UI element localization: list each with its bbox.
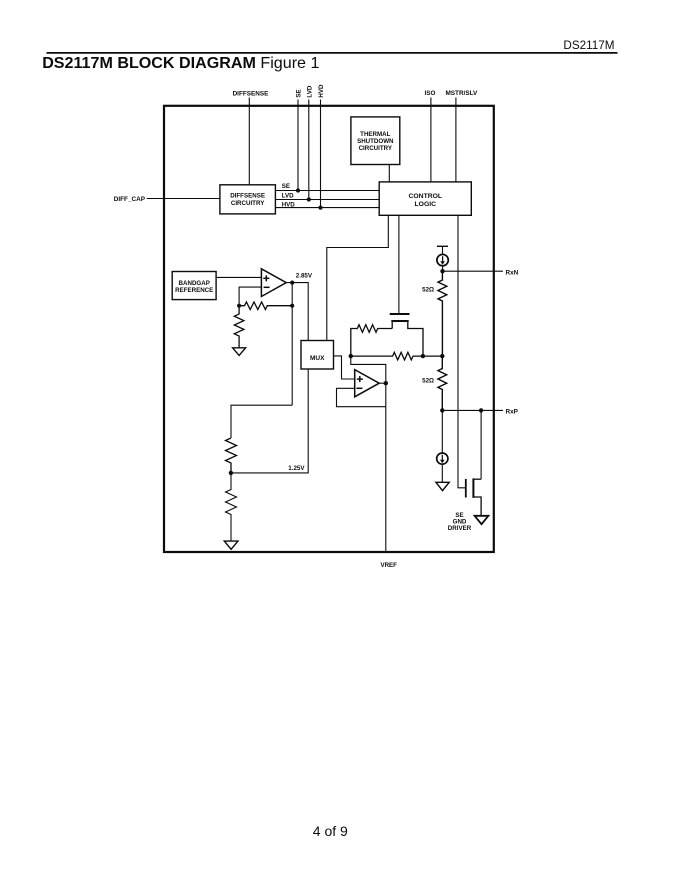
wire 2.85V down xyxy=(291,283,293,406)
resistor R8 52ohm xyxy=(438,356,447,410)
node A junction xyxy=(349,354,353,358)
current source I1 xyxy=(437,246,448,271)
svg-text:2.85V: 2.85V xyxy=(296,273,313,280)
svg-text:RxN: RxN xyxy=(506,269,519,276)
resistor R6 xyxy=(351,352,443,360)
svg-text:BANDGAP: BANDGAP xyxy=(179,280,210,287)
resistor R5 xyxy=(351,325,392,356)
svg-text:DIFFSENSE: DIFFSENSE xyxy=(230,193,265,200)
svg-text:DS2117M: DS2117M xyxy=(563,39,614,52)
svg-text:LVD: LVD xyxy=(282,193,294,200)
wire 1.25V to MUX xyxy=(231,369,308,473)
op-amp U1 output wire to MUX xyxy=(286,283,308,341)
BANDGAP REFERENCE box U6 xyxy=(172,272,216,300)
transistor M2 xyxy=(466,478,481,515)
transistor M1 xyxy=(390,314,423,356)
svg-text:SHUTDOWN: SHUTDOWN xyxy=(357,138,394,145)
current source I2 xyxy=(437,410,448,482)
VREF wire xyxy=(385,383,387,552)
node rail junction xyxy=(440,354,444,358)
node R6 right junction xyxy=(421,354,425,358)
THERMAL SHUTDOWN CIRCUITRY box U4 xyxy=(351,117,400,165)
header rule xyxy=(47,52,618,54)
svg-text:LVD: LVD xyxy=(306,85,313,97)
outer frame xyxy=(164,106,494,552)
MUX box U7 xyxy=(301,341,334,370)
wire control logic to M1 gate xyxy=(398,215,400,313)
wire U2 output xyxy=(379,382,386,384)
DIFFSENSE CIRCUITRY box U3 xyxy=(220,185,276,214)
MSTR/SLV wire xyxy=(455,98,457,182)
HVD pin wire xyxy=(320,100,322,208)
RxN wire xyxy=(443,270,504,272)
svg-text:MSTR/SLV: MSTR/SLV xyxy=(445,90,478,97)
wire MUX output to op-amp U2 xyxy=(334,356,355,379)
SE pin wire xyxy=(297,100,299,191)
supply tick xyxy=(437,245,448,247)
ground GND1 xyxy=(233,348,246,356)
node 2.85V junction xyxy=(290,281,294,285)
svg-text:1.25V: 1.25V xyxy=(288,465,305,472)
DIFF_CAP wire xyxy=(147,198,220,200)
node U2 output xyxy=(384,381,388,385)
svg-text:HVD: HVD xyxy=(318,84,325,98)
SE junction xyxy=(296,188,300,192)
HVD junction xyxy=(318,206,322,210)
node RxN junction xyxy=(440,269,444,273)
LVD pin wire xyxy=(308,100,310,200)
svg-text:THERMAL: THERMAL xyxy=(360,131,390,138)
wire U1 inverting input xyxy=(239,287,261,306)
svg-text:LOGIC: LOGIC xyxy=(415,201,437,208)
svg-text:SE: SE xyxy=(295,89,302,97)
svg-text:DS2117M BLOCK DIAGRAM Figure 1: DS2117M BLOCK DIAGRAM Figure 1 xyxy=(42,54,319,72)
svg-text:DRIVER: DRIVER xyxy=(448,525,472,532)
svg-text:MUX: MUX xyxy=(310,355,325,362)
svg-text:CIRCUITRY: CIRCUITRY xyxy=(359,145,393,152)
svg-text:VREF: VREF xyxy=(380,562,397,569)
resistor R3 xyxy=(226,438,237,473)
wire bandgap to op-amp xyxy=(216,276,261,278)
wire control logic to MUX xyxy=(327,215,389,340)
RxP wire xyxy=(442,409,503,411)
svg-text:CIRCUITRY: CIRCUITRY xyxy=(231,200,265,207)
wire RxP to M2 drain xyxy=(480,410,482,479)
SE GND DRIVER label xyxy=(448,512,472,532)
resistor R7 52ohm xyxy=(438,271,447,356)
ISO wire xyxy=(430,98,432,182)
svg-text:CONTROL: CONTROL xyxy=(408,193,442,200)
wire U2 output to node A xyxy=(351,356,386,383)
DIFFSENSE wire xyxy=(248,98,250,185)
svg-text:52Ω: 52Ω xyxy=(422,377,434,384)
ground GND3 xyxy=(436,482,449,490)
HVD net wire xyxy=(275,207,379,209)
ground GND2 xyxy=(224,541,238,549)
resistor R4 xyxy=(226,473,237,541)
resistor R2 xyxy=(234,306,244,348)
LVD net wire xyxy=(275,199,379,201)
svg-text:SE: SE xyxy=(282,183,290,190)
svg-text:4 of 9: 4 of 9 xyxy=(313,823,348,839)
svg-text:DIFF_CAP: DIFF_CAP xyxy=(114,196,146,203)
svg-text:REFERENCE: REFERENCE xyxy=(175,287,213,294)
svg-text:ISO: ISO xyxy=(424,90,435,97)
op-amp U1 xyxy=(261,269,286,297)
resistor R1 xyxy=(239,302,292,310)
ground GND4 xyxy=(475,516,489,524)
SE net wire xyxy=(275,190,379,192)
node M2 drain junction xyxy=(479,408,483,412)
svg-text:HVD: HVD xyxy=(282,201,296,208)
wire 2.85V node to divider xyxy=(231,405,292,438)
CONTROL LOGIC box U5 xyxy=(379,182,471,215)
node feedback junction xyxy=(290,304,294,308)
svg-text:RxP: RxP xyxy=(506,409,519,416)
LVD junction xyxy=(307,197,311,201)
op-amp U2 xyxy=(355,370,380,397)
wire U2 feedback xyxy=(337,388,386,406)
node RxP junction xyxy=(440,408,444,412)
node divider junction xyxy=(237,304,241,308)
node 1.25V xyxy=(229,471,233,475)
wire control logic to M2 gate xyxy=(458,215,465,488)
svg-text:52Ω: 52Ω xyxy=(422,286,434,293)
svg-text:DIFFSENSE: DIFFSENSE xyxy=(233,91,270,98)
thermal to control wire xyxy=(388,165,390,182)
